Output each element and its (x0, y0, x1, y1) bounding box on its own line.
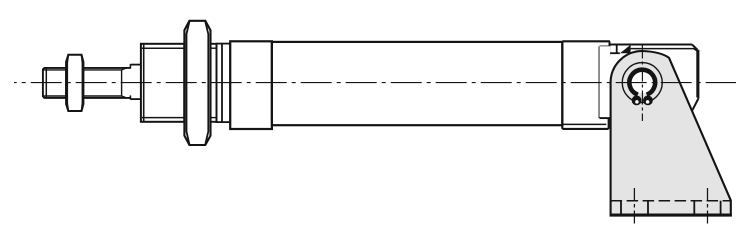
pivot vertical centerline (641, 45, 643, 122)
circlip lug holes (635, 100, 639, 104)
foot bottom line (610, 213, 732, 215)
main centerline (14, 82, 736, 84)
foot hole 1 centerline (633, 188, 635, 225)
foot hole 2 centerline (707, 188, 709, 225)
cylinder tube (272, 42, 562, 125)
foot hole 2 counterbore edges (693, 201, 695, 214)
pivot bracket body (611, 51, 731, 216)
rod nut facet arcs (67, 55, 68, 110)
foot hole 1 counterbore edges (620, 201, 622, 214)
rod collar before gland (130, 64, 141, 66)
large nut facet arcs (187, 22, 190, 145)
rod nut M1 (small hex nut side view) (66, 55, 83, 111)
pivot boss bore circle (622, 63, 662, 103)
circlip lug left (632, 96, 642, 106)
thread end (121, 70, 123, 96)
rear eye block (600, 45, 699, 119)
pin bore (632, 72, 653, 93)
nose thread minor lines (142, 47, 184, 49)
gland face inner line (143, 45, 145, 121)
rear cap (562, 41, 610, 129)
circlip lug right (643, 96, 653, 106)
front threaded nose bushing (141, 44, 184, 122)
rod tip thread minor lines (44, 69, 67, 71)
foot step hidden line (611, 200, 730, 202)
piston rod threaded section (83, 67, 130, 69)
front cap collar ring (217, 44, 231, 123)
front head block (230, 41, 272, 129)
piston rod threaded tip (43, 68, 66, 98)
eye notch (616, 45, 618, 54)
exposed nose thread right of nut (211, 43, 217, 45)
mounting hex nut M2 (large) (184, 21, 210, 145)
retaining ring (circlip) (629, 70, 655, 95)
eye chamfer lines (631, 49, 699, 52)
rod tip chamfer line (45, 68, 47, 97)
